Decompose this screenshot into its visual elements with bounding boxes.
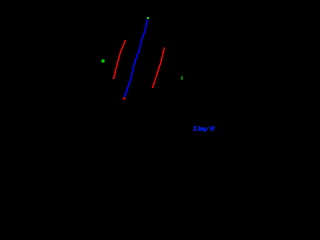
wire: right red track [153, 48, 165, 89]
node: green dot top of blue track [147, 17, 149, 19]
wire: blue track [125, 20, 148, 98]
label: blue caption text [192, 125, 215, 132]
node: green flag marker right [181, 76, 183, 80]
svg-text:X: X [192, 125, 197, 132]
svg-text:MW: MW [210, 125, 215, 132]
node: green square marker left [102, 60, 105, 63]
node: red dot bottom of blue track [123, 97, 125, 99]
wire: left red track [114, 40, 126, 79]
svg-text:Jmag: Jmag [197, 125, 207, 132]
